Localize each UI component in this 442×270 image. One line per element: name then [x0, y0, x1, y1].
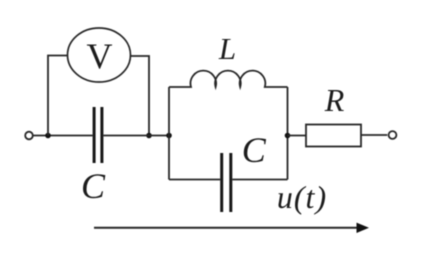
- resistor R1 body: [306, 125, 361, 147]
- svg-text:u(t): u(t): [277, 179, 327, 215]
- capacitor C2 plates: [222, 153, 231, 212]
- node D junction dot: [285, 133, 291, 139]
- node C junction dot: [166, 133, 172, 139]
- voltmeter U1 circle: [68, 28, 131, 82]
- left terminal: [25, 132, 33, 140]
- svg-text:C: C: [81, 166, 106, 206]
- wire left terminal to capacitor C1: [33, 135, 93, 137]
- wire tank bottom left: [169, 179, 220, 181]
- svg-text:C: C: [242, 130, 267, 170]
- svg-text:R: R: [324, 82, 345, 118]
- wire tank right vertical: [287, 87, 289, 180]
- wire capacitor C1 to tank: [104, 135, 170, 137]
- arrow u(t): [94, 227, 358, 229]
- wire tank left vertical: [168, 87, 170, 180]
- wire tank to resistor: [288, 135, 307, 137]
- node B junction dot: [146, 133, 152, 139]
- node A junction dot: [45, 133, 51, 139]
- svg-text:V: V: [87, 36, 113, 76]
- right terminal: [389, 131, 397, 139]
- capacitor C1 plates: [94, 107, 102, 163]
- wire voltmeter right branch: [131, 56, 150, 136]
- wire tank bottom right: [232, 179, 287, 181]
- wire resistor to right terminal: [361, 134, 387, 136]
- inductor L1 top branch: [169, 71, 288, 87]
- wire voltmeter left branch: [48, 56, 68, 136]
- svg-text:L: L: [218, 31, 236, 66]
